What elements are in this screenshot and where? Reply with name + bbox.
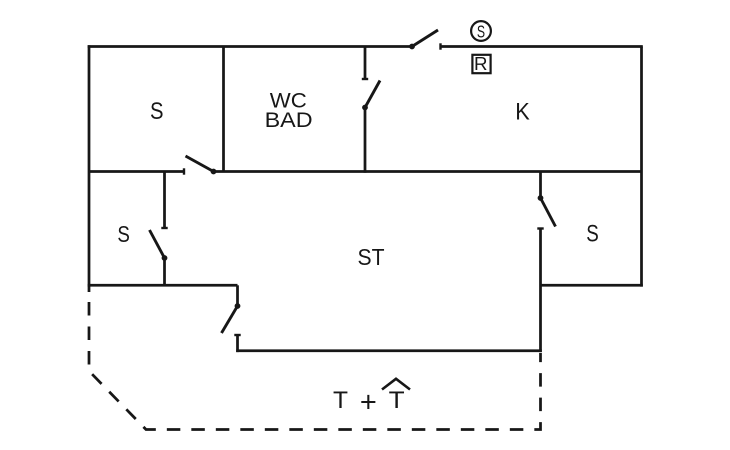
door D4 leaf (lower-left S room) bbox=[150, 230, 165, 258]
wall divider S/WC bbox=[222, 47, 225, 172]
svg-text:S: S bbox=[586, 221, 599, 248]
node hinge dot door D3 bbox=[211, 169, 217, 175]
wall left-mid door lower stub bbox=[163, 258, 166, 285]
door D1 leaf (top wall K entry) bbox=[412, 30, 438, 47]
wall top right segment bbox=[441, 45, 643, 48]
wall ST bottom bbox=[236, 349, 542, 352]
door D2 leaf (WC/K) bbox=[365, 81, 380, 108]
door D5 leaf (right S room) bbox=[541, 198, 556, 227]
door D2 jamb tick bbox=[362, 78, 368, 80]
wall lower-left horizontal bbox=[88, 284, 238, 287]
symbol circle S (on top wall) bbox=[471, 21, 491, 41]
svg-text:BAD: BAD bbox=[265, 109, 313, 132]
wall right S bottom bbox=[541, 284, 643, 287]
door D3 jamb tick bbox=[183, 168, 185, 174]
wall divider WC/K lower bbox=[364, 108, 367, 173]
wall right S left lower bbox=[539, 229, 542, 353]
svg-text:T: T bbox=[333, 387, 348, 414]
svg-text:R: R bbox=[474, 53, 488, 74]
wire dashed terrace boundary T bbox=[89, 302, 541, 430]
wall top left segment bbox=[88, 45, 412, 48]
door D5 jamb tick bbox=[537, 227, 543, 229]
node hinge dot door D4 bbox=[162, 255, 168, 261]
svg-text:+: + bbox=[360, 386, 377, 418]
node hinge dot door D5 bbox=[538, 195, 544, 201]
node hinge dot door D2 bbox=[362, 105, 368, 111]
door D6 jamb tick bbox=[234, 334, 240, 336]
svg-text:S: S bbox=[477, 21, 485, 41]
node hinge dot door D6 bbox=[235, 303, 241, 309]
svg-text:S: S bbox=[150, 98, 164, 125]
node hinge dot door D1 bbox=[409, 44, 415, 50]
wall left outer bbox=[88, 45, 91, 292]
svg-text:T: T bbox=[389, 387, 405, 414]
wall right S upper stub bbox=[539, 172, 542, 199]
door D1 jamb tick bbox=[439, 43, 441, 49]
wall ST door lower stub bbox=[236, 335, 239, 352]
wall left-mid door upper stub bbox=[163, 172, 166, 229]
door D3 leaf (S room) bbox=[186, 156, 214, 172]
wall mid horizontal left segment bbox=[89, 170, 184, 173]
symbol box R (below top wall) bbox=[472, 55, 490, 73]
wall right outer bbox=[640, 47, 643, 287]
svg-text:S: S bbox=[117, 221, 130, 247]
symbol hat over T bbox=[382, 379, 410, 390]
svg-text:K: K bbox=[515, 98, 530, 125]
svg-text:ST: ST bbox=[358, 244, 385, 270]
door D6 leaf (ST hall) bbox=[222, 306, 238, 333]
wall ST door upper stub bbox=[236, 285, 239, 306]
wall mid horizontal right segment bbox=[214, 170, 642, 173]
wall divider WC/K upper stub bbox=[364, 47, 367, 80]
door D4 jamb tick bbox=[161, 227, 167, 229]
